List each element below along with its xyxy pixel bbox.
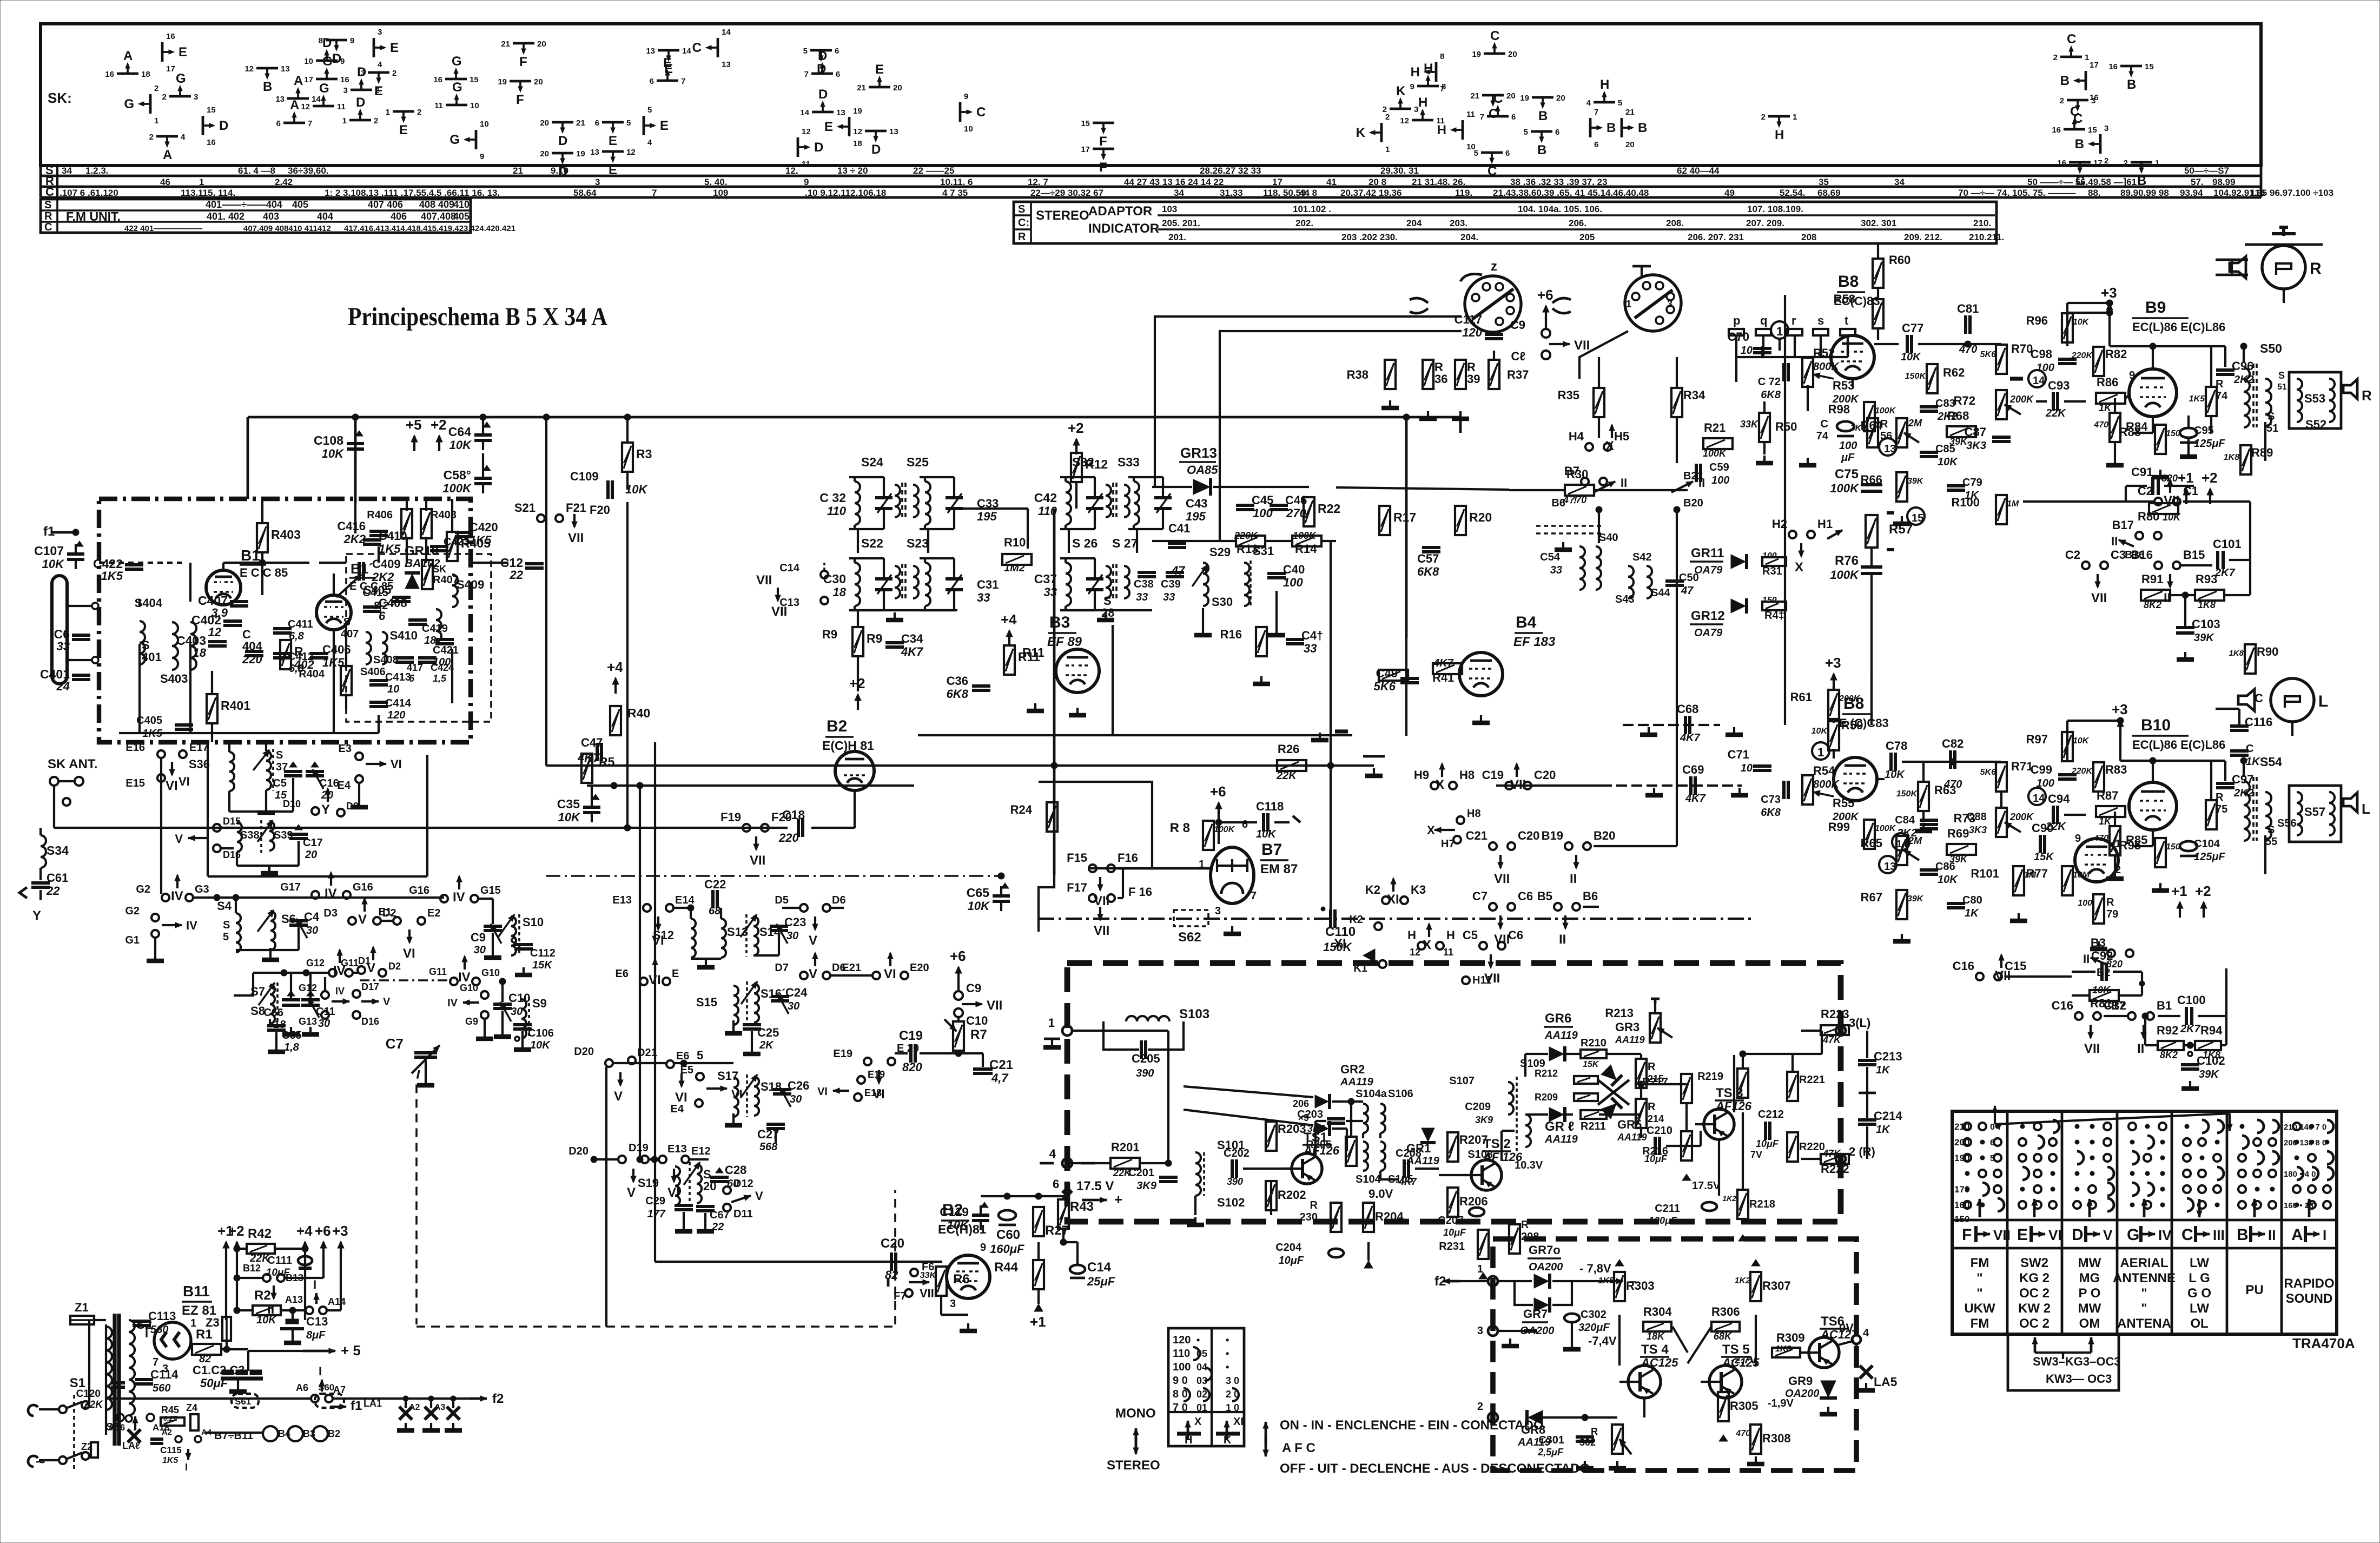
svg-text:R87: R87 (2097, 789, 2118, 802)
svg-text:H: H (1411, 65, 1420, 80)
svg-text:D16: D16 (361, 1016, 379, 1027)
svg-text:1K: 1K (1876, 1124, 1890, 1136)
supply +3 arrow lower (1833, 674, 1835, 689)
svg-text:30: 30 (788, 1000, 799, 1012)
svg-text:KW3— OC3: KW3— OC3 (2046, 1372, 2112, 1386)
svg-text:100K: 100K (1703, 448, 1727, 459)
svg-text:13: 13 (275, 95, 285, 104)
svg-text:K1: K1 (1353, 962, 1367, 974)
svg-text:2K2: 2K2 (2233, 787, 2254, 799)
svg-text:S408: S408 (373, 654, 399, 666)
contacts G17 G16 on bus (312, 891, 319, 899)
svg-text:D: D (332, 51, 341, 66)
switch contact K 2-1 (1380, 123, 1383, 142)
svg-text:8K2: 8K2 (2144, 599, 2161, 610)
svg-text:R65: R65 (1861, 836, 1882, 850)
resistor R86 (2096, 393, 2125, 404)
switch contact C 16-15 (2064, 128, 2085, 131)
svg-text:H8: H8 (1467, 808, 1481, 820)
switch contact D 7-6 (811, 72, 833, 75)
svg-text:19: 19 (576, 149, 585, 159)
svg-text:1K2: 1K2 (1735, 1276, 1750, 1285)
svg-text:C424: C424 (431, 662, 454, 673)
svg-text:407: 407 (341, 628, 359, 640)
svg-text:820: 820 (2161, 473, 2178, 484)
capacitor C401 (72, 674, 90, 677)
svg-text:C: C (44, 221, 52, 233)
switch contact G 2-3 (169, 95, 191, 98)
svg-text:B: B (2237, 1226, 2249, 1244)
svg-text:C14: C14 (1087, 1260, 1112, 1275)
svg-text:S406: S406 (360, 666, 386, 678)
svg-text:B11: B11 (183, 1283, 210, 1300)
svg-text:C58°: C58° (444, 468, 471, 482)
svg-text:": " (2141, 1301, 2147, 1316)
svg-text:VI: VI (2048, 1227, 2062, 1243)
svg-text:16: 16 (105, 70, 114, 79)
svg-text:1K5: 1K5 (470, 533, 492, 547)
svg-text:15: 15 (207, 105, 216, 115)
tube B3 EF89 (1056, 649, 1099, 693)
svg-text:R9: R9 (867, 631, 882, 645)
svg-text:C98: C98 (2031, 347, 2052, 361)
svg-text:10K: 10K (1256, 828, 1277, 840)
voltage selector table (1168, 1328, 1244, 1446)
svg-text:H: H (1437, 123, 1446, 137)
svg-text:100: 100 (1762, 551, 1777, 561)
svg-text:+3: +3 (332, 1223, 348, 1239)
svg-text:C: C (976, 105, 986, 120)
contacts D10 D9 (312, 807, 319, 815)
resistor R50 (1759, 413, 1770, 442)
wire IF1 to IF2 (957, 507, 1028, 510)
capacitor C12 (525, 562, 544, 565)
contacts B17 B16 II (2136, 532, 2143, 539)
output transformer S54 S55 (2244, 781, 2250, 841)
svg-text:VI: VI (884, 967, 896, 981)
svg-text:A: A (2291, 1226, 2303, 1244)
svg-text:203.: 203. (1450, 218, 1467, 228)
svg-text:R34: R34 (1683, 388, 1705, 402)
svg-text:E17: E17 (189, 742, 209, 754)
switch contact D 1-2 (349, 119, 371, 122)
svg-text:3: 3 (2104, 124, 2108, 133)
wire x3100 extension (1676, 725, 1678, 846)
svg-text:P O: P O (2079, 1286, 2101, 1301)
svg-text:407.409 408410 411412: 407.409 408410 411412 (243, 224, 331, 233)
svg-text:VII: VII (750, 853, 765, 868)
svg-text:LA5: LA5 (1874, 1375, 1898, 1389)
svg-text:17: 17 (1081, 145, 1090, 154)
circled 13 (1879, 438, 1896, 456)
svg-text:S: S (44, 199, 51, 211)
svg-text:18K: 18K (1647, 1331, 1665, 1342)
switch contact E 16-17 (161, 42, 164, 62)
svg-text:C: C (45, 185, 54, 199)
svg-text:R231: R231 (1439, 1241, 1465, 1252)
contacts D20 D19 E13 E12 row3 (591, 1156, 597, 1163)
svg-text:R 8: R 8 (1170, 821, 1190, 835)
contacts G12 G13 D17 D16 (321, 991, 329, 999)
svg-text:S104: S104 (1356, 1173, 1381, 1185)
capacitor C77 (1906, 335, 1909, 353)
svg-text:IV: IV (447, 997, 458, 1009)
pin wires (1735, 357, 1737, 382)
antenna dipole (52, 576, 67, 684)
svg-text:+4: +4 (607, 659, 623, 675)
svg-text:206: 206 (1293, 1098, 1309, 1109)
svg-text:H: H (1600, 77, 1609, 92)
svg-text:10: 10 (1741, 762, 1753, 774)
svg-text:C61: C61 (47, 871, 68, 885)
table pointer line (1995, 1113, 2230, 1124)
svg-text:170: 170 (1954, 1184, 1969, 1195)
svg-text:R92: R92 (2157, 1024, 2178, 1037)
svg-text:100: 100 (1283, 576, 1303, 589)
svg-text:II: II (2111, 535, 2118, 548)
svg-text:R: R (44, 210, 52, 222)
svg-text:E: E (824, 120, 833, 134)
transistor TS3 (1704, 1109, 1734, 1139)
svg-text:55: 55 (2265, 836, 2277, 848)
capacitor C413 (369, 679, 388, 682)
svg-text:2: 2 (374, 116, 378, 126)
svg-text:7: 7 (652, 188, 657, 198)
svg-text:C4: C4 (304, 910, 320, 924)
contact F6 F7 (910, 1269, 918, 1276)
capacitor C421 (435, 638, 454, 641)
svg-text:10K: 10K (1938, 874, 1958, 886)
svg-text:G16: G16 (353, 881, 373, 893)
svg-text:1: 1 (1817, 746, 1824, 759)
svg-text:R20: R20 (1469, 510, 1492, 524)
switch contact G 12-11 (313, 105, 334, 108)
svg-text:S61: S61 (235, 1396, 251, 1407)
svg-text:AA119: AA119 (1544, 1030, 1578, 1041)
svg-text:C39: C39 (1161, 578, 1181, 590)
svg-text:C106: C106 (528, 1027, 554, 1039)
svg-text:74: 74 (1816, 430, 1829, 442)
resistor R74 (2206, 387, 2217, 416)
long verticals from IF to decoder (1330, 541, 1332, 919)
svg-text:8K2: 8K2 (2160, 1050, 2178, 1060)
svg-text:E13: E13 (612, 894, 632, 906)
svg-text:9: 9 (350, 36, 354, 45)
svg-text:C211: C211 (1655, 1203, 1680, 1215)
capacitor C79 (1947, 484, 1965, 487)
svg-text:2: 2 (2053, 53, 2058, 62)
svg-text:AA119: AA119 (1340, 1076, 1374, 1088)
svg-text:6: 6 (595, 118, 599, 128)
resistor R75 C97 (2206, 800, 2217, 829)
triode B1a (206, 570, 241, 605)
svg-text:μF: μF (1841, 452, 1855, 464)
svg-text:+6: +6 (1210, 783, 1226, 800)
switch contact C 9-10 (959, 102, 962, 122)
svg-text:B10: B10 (2141, 716, 2171, 734)
contacts F17 F16 lower (1089, 894, 1096, 902)
svg-text:210.211.: 210.211. (1969, 232, 2004, 242)
svg-text:C3: C3 (2111, 548, 2126, 562)
svg-text:A14: A14 (328, 1296, 346, 1307)
coil S37 (266, 751, 271, 790)
svg-text:VII: VII (2084, 1041, 2100, 1056)
capacitor R76 (1861, 565, 1882, 569)
wire vertical x1010 FM AGC (545, 417, 547, 766)
svg-text:R86: R86 (2097, 375, 2118, 389)
svg-text:160: 160 (1954, 1200, 1969, 1210)
coil S29 S30 (1203, 563, 1208, 606)
svg-text:12: 12 (853, 127, 862, 136)
svg-text:F 16: F 16 (1128, 885, 1152, 899)
svg-text:5. 40.: 5. 40. (704, 177, 728, 187)
svg-text:401: 401 (142, 650, 162, 664)
svg-text:H4: H4 (1569, 430, 1584, 443)
svg-text:4,7: 4,7 (991, 1071, 1009, 1085)
svg-text:R41: R41 (1432, 671, 1454, 684)
svg-text:1K5: 1K5 (1598, 1276, 1615, 1285)
svg-text:II: II (2137, 1041, 2144, 1056)
svg-text:E: E (2017, 1226, 2028, 1244)
svg-text:C: C (1490, 29, 1499, 43)
long vertical x1183 (639, 786, 641, 1159)
svg-text:G13: G13 (299, 1016, 317, 1027)
svg-text:I: I (145, 1327, 148, 1340)
svg-text:SK:: SK: (48, 90, 72, 106)
svg-text:E1: E1 (379, 906, 392, 918)
svg-text:19: 19 (1472, 50, 1481, 59)
svg-text:C208: C208 (1396, 1148, 1422, 1159)
svg-text:R304: R304 (1643, 1305, 1672, 1318)
tone vertical (1870, 674, 1873, 725)
fuse Z1 (70, 1316, 94, 1324)
svg-text:109: 109 (713, 188, 728, 198)
svg-text:0,27: 0,27 (163, 1414, 177, 1422)
supply +1 +2 arrows B10 (2179, 902, 2181, 918)
svg-text:H8: H8 (1459, 768, 1475, 782)
svg-text:F: F (1099, 134, 1107, 149)
svg-text:H: H (1446, 928, 1455, 942)
supply arrows +5 +2 (413, 436, 415, 451)
contacts H4 H5 B7 B21 B6 B20 group (1585, 443, 1593, 451)
contacts G2 G1 vertical (151, 914, 159, 921)
svg-text:22K: 22K (83, 1399, 103, 1410)
svg-text:36÷39,60.: 36÷39,60. (288, 166, 329, 176)
svg-text:R61: R61 (1790, 690, 1812, 704)
svg-text:E: E (178, 45, 187, 60)
svg-text:SW2: SW2 (2020, 1256, 2048, 1270)
svg-text:C202: C202 (1224, 1148, 1249, 1159)
svg-text:1,8: 1,8 (284, 1041, 300, 1053)
svg-text:IV: IV (335, 986, 345, 997)
resistor R100 (1996, 495, 2007, 524)
resistor R98 (1864, 402, 1875, 431)
svg-text:203 .202 230.: 203 .202 230. (1341, 232, 1398, 242)
svg-text:12: 12 (626, 148, 636, 157)
svg-text:C65: C65 (967, 886, 989, 900)
svg-text:C204: C204 (1275, 1242, 1302, 1254)
capacitor C415 (392, 596, 411, 599)
svg-text:R: R (1310, 1199, 1318, 1211)
svg-text:B19: B19 (1542, 829, 1563, 842)
svg-text:H1: H1 (1817, 517, 1833, 531)
svg-text:H: H (1775, 128, 1784, 142)
svg-text:1,5: 1,5 (433, 673, 447, 684)
svg-text:E5: E5 (680, 1064, 693, 1076)
svg-text:+: + (1114, 1191, 1122, 1208)
svg-text:I: I (319, 1364, 322, 1378)
resistor R61 (1828, 690, 1839, 719)
svg-text:B20: B20 (1594, 829, 1615, 842)
svg-text:13: 13 (281, 64, 290, 74)
coil S10 (511, 916, 516, 955)
resistor R308 (1750, 1425, 1761, 1454)
svg-text:R90: R90 (2257, 645, 2278, 658)
svg-text:C214: C214 (1874, 1109, 1902, 1123)
svg-text:20: 20 (1508, 50, 1517, 59)
svg-text:G17: G17 (280, 881, 301, 893)
svg-text:74: 74 (2216, 390, 2228, 402)
svg-text:205. 201.: 205. 201. (1162, 218, 1200, 228)
switch contact A 6-7 (283, 122, 305, 124)
svg-text:R303: R303 (1626, 1279, 1655, 1293)
svg-text:404: 404 (317, 211, 333, 222)
svg-text:S15: S15 (696, 995, 717, 1009)
switch contact A 13-14 (287, 97, 309, 100)
svg-text:R31: R31 (1762, 565, 1782, 577)
svg-text:C20: C20 (1534, 768, 1556, 782)
svg-text:D20: D20 (574, 1046, 594, 1058)
svg-text:ADAPTOR: ADAPTOR (1088, 204, 1152, 219)
svg-text:407 406: 407 406 (368, 199, 403, 210)
svg-text:+2: +2 (2201, 470, 2218, 486)
svg-text:FM: FM (1971, 1256, 1989, 1270)
R99 R65 R69 cluster (1864, 820, 1875, 849)
svg-text:100: 100 (2037, 777, 2054, 789)
svg-text:100K: 100K (1293, 530, 1317, 541)
circled 14 (2028, 370, 2046, 387)
svg-text:C86: C86 (1935, 861, 1955, 873)
svg-text:800K: 800K (1813, 779, 1840, 790)
svg-text:1: 1 (199, 177, 204, 187)
svg-text:G16: G16 (409, 885, 429, 896)
svg-text:C41: C41 (1168, 522, 1190, 535)
svg-text:C14: C14 (779, 562, 800, 574)
resistor R9 (852, 627, 863, 656)
svg-text:-1,9V: -1,9V (1768, 1397, 1794, 1409)
switch contact C 19-20 (1484, 52, 1505, 55)
resistors R92 R94 (2158, 1041, 2184, 1050)
resistor R6 (936, 1267, 947, 1296)
svg-text:3K3: 3K3 (1969, 825, 1987, 835)
heater supply arrows +1 +2 (225, 1242, 227, 1257)
svg-text:7: 7 (681, 77, 685, 86)
svg-text:B9: B9 (2145, 299, 2166, 316)
svg-text:2K7: 2K7 (2180, 1023, 2201, 1035)
svg-text:II: II (1698, 476, 1705, 490)
svg-text:R: R (2216, 792, 2224, 803)
svg-text:×9: ×9 (1298, 1112, 1309, 1123)
svg-text:201.: 201. (1168, 232, 1186, 242)
svg-text:22 ——25: 22 ——25 (913, 166, 955, 176)
switch contact H 2-1 (1768, 115, 1790, 118)
svg-text:10: 10 (964, 124, 973, 134)
svg-text:G10: G10 (460, 982, 478, 993)
svg-text:EC(L)86 E(C)L86: EC(L)86 E(C)L86 (2132, 320, 2225, 334)
svg-text:R44: R44 (994, 1260, 1019, 1275)
svg-text:470: 470 (2093, 834, 2108, 843)
svg-text:R12: R12 (1085, 457, 1108, 471)
svg-text:68: 68 (709, 905, 721, 917)
svg-text:33: 33 (1136, 591, 1148, 603)
svg-text:G2: G2 (125, 905, 140, 917)
svg-text:H9: H9 (1414, 768, 1429, 782)
mains switch contacts (59, 1406, 67, 1413)
svg-text:C20: C20 (1518, 829, 1539, 842)
svg-text:39: 39 (1467, 372, 1480, 386)
coil S14 C23 (753, 916, 758, 955)
svg-text:S33: S33 (1118, 455, 1140, 469)
switch contact E 21-20 (869, 86, 890, 89)
transformer S107 S109 S108 (1508, 1082, 1513, 1115)
svg-text:VII: VII (1494, 872, 1510, 886)
capacitor C101 R91 R93 (2216, 551, 2219, 569)
switch contact B 16-15 (2120, 65, 2142, 68)
svg-text:3: 3 (343, 86, 348, 95)
svg-text:C31: C31 (977, 578, 999, 591)
capacitor C107 (75, 544, 77, 554)
svg-text:V: V (367, 961, 375, 975)
svg-text:10K: 10K (256, 1314, 277, 1326)
svg-text:21: 21 (1625, 108, 1635, 117)
svg-text:B16: B16 (2131, 548, 2153, 562)
capacitor C422 (125, 563, 143, 566)
IF strip ground bus 1 (849, 609, 957, 611)
resistor R43 (1058, 1199, 1069, 1229)
capacitor C302 (1564, 1314, 1579, 1322)
svg-text:R202: R202 (1278, 1188, 1306, 1202)
resistor R401 (207, 694, 217, 723)
switch contact D 10-9 (316, 60, 338, 62)
svg-text:30: 30 (306, 925, 318, 937)
svg-text:R26: R26 (1278, 742, 1299, 756)
resistor R405 (447, 532, 458, 561)
svg-text:C9: C9 (471, 931, 486, 944)
svg-text:0V: 0V (1839, 1321, 1854, 1335)
svg-text:50—÷—S7: 50—÷—S7 (2184, 166, 2229, 176)
svg-text:.10 9.12.112.106.18: .10 9.12.112.106.18 (805, 188, 886, 198)
svg-text:21: 21 (501, 39, 510, 49)
svg-text:100K: 100K (1830, 482, 1860, 495)
svg-text:EM 87: EM 87 (1260, 862, 1298, 876)
svg-text:4: 4 (1863, 1327, 1869, 1339)
svg-text:R52: R52 (1813, 346, 1835, 360)
svg-text:C23: C23 (784, 915, 806, 929)
svg-text:C101: C101 (2213, 537, 2242, 551)
capacitor C402 (223, 619, 242, 623)
svg-text:34: 34 (1174, 188, 1184, 198)
contacts C2 C1 R80 C91 row upper (2154, 498, 2162, 505)
capacitor C66 (282, 998, 300, 1001)
lamp LA4 (128, 1429, 141, 1442)
svg-text:5K6: 5K6 (1980, 350, 1996, 359)
svg-text:V: V (2103, 1227, 2113, 1243)
switch contact E 13-14 (658, 49, 679, 52)
capacitor C18 (797, 819, 800, 837)
tube B10 second half (2075, 839, 2118, 882)
svg-text:G: G (319, 81, 329, 96)
svg-text:UKW: UKW (1964, 1301, 1995, 1316)
